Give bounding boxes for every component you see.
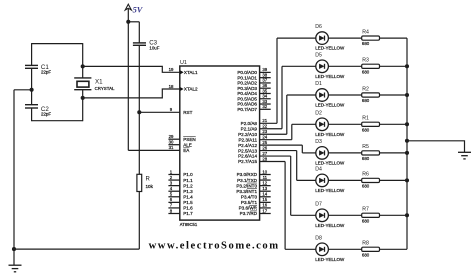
- op-amp U1 AT89C51 body: [180, 60, 260, 227]
- wire R4 to ground bus: [380, 37, 408, 39]
- svg-text:R1: R1: [362, 116, 369, 122]
- power +5V: [125, 4, 144, 14]
- pin P1.2 (3): [168, 180, 193, 188]
- svg-text:24: 24: [262, 134, 267, 139]
- ground left: [9, 249, 22, 272]
- wire XTAL2: [83, 89, 180, 98]
- svg-text:P0.5/AD5: P0.5/AD5: [237, 96, 257, 101]
- pin EA (31): [169, 145, 191, 153]
- pin P1.3 (4): [168, 186, 193, 194]
- LED D8: [315, 235, 345, 262]
- wire P2.4 to D3: [260, 145, 316, 153]
- svg-text:LED-YELLOW: LED-YELLOW: [315, 161, 345, 166]
- wire bus to ground: [407, 141, 465, 153]
- wire D2 to R1: [328, 123, 361, 125]
- wire P2.3 to D2: [260, 124, 316, 139]
- svg-text:R5: R5: [362, 144, 369, 150]
- wire D3 to R5: [328, 152, 361, 154]
- svg-text:D2: D2: [315, 110, 322, 116]
- wire C3 branch drop: [138, 22, 140, 43]
- resistor R1 680: [362, 116, 380, 133]
- svg-text:X1: X1: [95, 79, 103, 86]
- svg-text:P0.1/AD1: P0.1/AD1: [237, 75, 257, 80]
- svg-text:5V: 5V: [133, 5, 144, 14]
- pin PSEN (29): [168, 134, 195, 142]
- svg-text:680: 680: [362, 127, 370, 132]
- svg-text:P3.5/T1: P3.5/T1: [241, 200, 258, 205]
- node XTAL1 tap: [81, 64, 85, 68]
- LED D4: [315, 167, 345, 194]
- svg-text:LED-YELLOW: LED-YELLOW: [315, 103, 345, 108]
- svg-text:D8: D8: [315, 235, 322, 241]
- pin P0.5/AD5 (34): [237, 94, 270, 102]
- svg-text:P2.6/A14: P2.6/A14: [238, 154, 257, 159]
- svg-text:LED-YELLOW: LED-YELLOW: [315, 132, 345, 137]
- watermark text: [149, 241, 280, 252]
- svg-text:R2: R2: [362, 86, 369, 92]
- svg-text:D5: D5: [315, 52, 322, 58]
- pin P3.4/T0 (14): [241, 192, 271, 200]
- wire crystal loop bottom rail: [32, 120, 83, 122]
- pin P3.0/RXD (10): [237, 169, 271, 177]
- node bus junction D7 row: [405, 213, 409, 217]
- wire C3 branch top: [128, 21, 139, 23]
- node XTAL2 tap: [81, 96, 85, 100]
- svg-text:21: 21: [262, 118, 267, 123]
- svg-text:CRYSTAL: CRYSTAL: [95, 86, 115, 91]
- svg-text:39: 39: [262, 67, 267, 72]
- pin P0.3/AD3 (36): [237, 83, 270, 91]
- wire P2.6 to D7: [260, 156, 316, 215]
- svg-text:27: 27: [262, 151, 267, 156]
- wire crystal loop left mid segment: [31, 68, 33, 104]
- svg-text:R3: R3: [362, 58, 369, 64]
- resistor R8 680: [362, 241, 380, 258]
- node RST junction: [137, 110, 141, 114]
- svg-text:P0.7/AD7: P0.7/AD7: [237, 107, 257, 112]
- node bus junction D2 row: [405, 122, 409, 126]
- pin ALE (30): [168, 140, 191, 148]
- pin P3.5/T1 (15): [241, 197, 271, 205]
- pin P2.6/A14 (27): [238, 151, 268, 159]
- svg-text:680: 680: [362, 69, 370, 74]
- svg-text:P3.2/INT0: P3.2/INT0: [236, 183, 257, 188]
- svg-text:P2.1/A9: P2.1/A9: [241, 126, 258, 131]
- svg-text:P3.6/WR: P3.6/WR: [239, 206, 258, 211]
- wire R2 to ground bus: [380, 94, 408, 96]
- pin P3.3/INT1 (13): [236, 186, 270, 194]
- wire P2.2 to D1: [260, 95, 316, 134]
- resistor R7 680: [362, 207, 380, 224]
- svg-text:LED-YELLOW: LED-YELLOW: [315, 257, 345, 262]
- svg-text:D6: D6: [315, 24, 322, 30]
- svg-text:P1.4: P1.4: [183, 194, 193, 199]
- svg-text:26: 26: [262, 145, 267, 150]
- pin XTAL1 (19): [169, 67, 198, 75]
- svg-text:D3: D3: [315, 139, 322, 145]
- node bus ground tap: [405, 139, 409, 143]
- pin P0.0/AD0 (39): [237, 67, 270, 75]
- svg-text:R4: R4: [362, 29, 369, 35]
- wire P2.1 to D5: [260, 66, 316, 128]
- LED D5: [315, 52, 345, 79]
- resistor R6 680: [362, 172, 380, 189]
- svg-text:22pF: 22pF: [41, 111, 51, 116]
- node bus junction D5 row: [405, 64, 409, 68]
- wire R1 to ground bus: [380, 123, 408, 125]
- svg-text:680: 680: [362, 98, 370, 103]
- svg-text:LED-YELLOW: LED-YELLOW: [315, 223, 345, 228]
- svg-text:680: 680: [362, 252, 370, 257]
- ground right: [458, 152, 471, 159]
- svg-text:25: 25: [262, 140, 267, 145]
- pin P0.2/AD2 (37): [237, 78, 270, 86]
- node +5V to C3 branch: [126, 20, 130, 24]
- svg-text:P1.0: P1.0: [183, 172, 193, 177]
- node bus junction D3 row: [405, 151, 409, 155]
- svg-text:LED-YELLOW: LED-YELLOW: [315, 74, 345, 79]
- wire XTAL1: [83, 66, 180, 72]
- wire bottom rail to R: [14, 248, 139, 250]
- svg-text:34: 34: [262, 94, 267, 99]
- resistor R3 680: [362, 58, 380, 75]
- svg-text:17: 17: [262, 208, 267, 213]
- svg-text:EA: EA: [183, 148, 190, 153]
- svg-text:680: 680: [362, 218, 370, 223]
- resistor R2 680: [362, 86, 380, 103]
- wire ground bus: [406, 38, 408, 249]
- pin P3.1/TXD (11): [237, 175, 271, 183]
- wire P2.0 to D6: [260, 38, 316, 123]
- svg-text:P1.5: P1.5: [183, 200, 193, 205]
- svg-text:P3.4/T0: P3.4/T0: [241, 194, 258, 199]
- svg-text:U1: U1: [180, 60, 187, 66]
- svg-text:10k: 10k: [146, 184, 154, 189]
- wire crystal loop left lower segment: [31, 108, 33, 121]
- wire RST to R: [138, 112, 140, 174]
- wire crystal loop right rail upper: [82, 43, 84, 78]
- svg-text:23: 23: [262, 129, 267, 134]
- LED D7: [315, 201, 345, 228]
- wire R7 to ground bus: [380, 214, 408, 216]
- svg-text:R7: R7: [362, 207, 369, 213]
- svg-text:680: 680: [362, 156, 370, 161]
- svg-text:P0.2/AD2: P0.2/AD2: [237, 81, 257, 86]
- svg-text:22: 22: [262, 124, 267, 129]
- wire +5V rail down: [127, 9, 129, 150]
- svg-text:P1.3: P1.3: [183, 189, 193, 194]
- pin RST (9): [170, 107, 193, 115]
- wire R to ground rail: [138, 192, 140, 250]
- svg-text:13: 13: [262, 186, 267, 191]
- svg-text:18: 18: [169, 84, 174, 89]
- svg-text:P3.3/INT1: P3.3/INT1: [236, 189, 257, 194]
- svg-text:38: 38: [262, 72, 267, 77]
- pin P2.2/A10 (23): [238, 129, 268, 137]
- resistor R5 680: [362, 144, 380, 161]
- resistor R 10k: [137, 174, 154, 191]
- svg-text:P3.7/RD: P3.7/RD: [240, 211, 258, 216]
- svg-text:P0.6/AD6: P0.6/AD6: [237, 102, 257, 107]
- svg-text:10: 10: [262, 169, 267, 174]
- svg-text:36: 36: [262, 83, 267, 88]
- svg-text:R8: R8: [362, 241, 369, 247]
- svg-text:P2.3/A11: P2.3/A11: [238, 137, 257, 142]
- LED D2: [315, 110, 345, 136]
- wire mid node to left: [14, 89, 32, 91]
- node bus junction D4 row: [405, 178, 409, 182]
- LED D1: [315, 81, 345, 108]
- svg-text:P2.2/A10: P2.2/A10: [238, 132, 257, 137]
- svg-text:P1.7: P1.7: [183, 211, 193, 216]
- svg-text:P1.6: P1.6: [183, 206, 193, 211]
- pin P1.5 (6): [168, 197, 193, 205]
- svg-text:680: 680: [362, 41, 370, 46]
- svg-text:P3.1/TXD: P3.1/TXD: [237, 178, 258, 183]
- pin P0.7/AD7 (32): [237, 104, 270, 112]
- wire D4 to R6: [328, 179, 361, 181]
- svg-text:P1.2: P1.2: [183, 183, 193, 188]
- wire D6 to R4: [328, 37, 361, 39]
- svg-text:P2.7/A15: P2.7/A15: [238, 159, 257, 164]
- svg-text:10uF: 10uF: [149, 46, 159, 51]
- node bus junction D1 row: [405, 93, 409, 97]
- svg-text:D7: D7: [315, 201, 322, 207]
- capacitor C2: [25, 105, 51, 117]
- svg-text:RST: RST: [183, 110, 192, 115]
- pin P1.4 (5): [168, 192, 193, 200]
- svg-text:P1.1: P1.1: [183, 178, 193, 183]
- pin P3.2/INT0 (12): [236, 180, 270, 188]
- wire R8 to ground bus: [380, 248, 408, 250]
- svg-text:P0.3/AD3: P0.3/AD3: [237, 86, 257, 91]
- wire D5 to R3: [328, 65, 361, 67]
- wire EA to +5V: [128, 149, 180, 151]
- capacitor C1: [25, 64, 51, 75]
- svg-text:29: 29: [169, 134, 174, 139]
- wire crystal loop left upper segment: [31, 43, 33, 65]
- svg-text:D1: D1: [315, 81, 322, 87]
- pin P1.6 (7): [168, 203, 193, 211]
- svg-text:12: 12: [262, 180, 267, 185]
- crystal X1: [74, 78, 115, 91]
- svg-text:15: 15: [262, 197, 267, 202]
- svg-text:AT89C51: AT89C51: [180, 222, 198, 227]
- LED D6: [315, 24, 345, 51]
- svg-text:19: 19: [169, 67, 174, 72]
- resistor R4 680: [362, 29, 380, 46]
- pin P2.7/A15 (28): [238, 156, 268, 164]
- svg-text:11: 11: [263, 175, 268, 180]
- wire R5 to ground bus: [380, 152, 408, 154]
- svg-text:LED-YELLOW: LED-YELLOW: [315, 46, 345, 51]
- svg-text:www.electroSome.com: www.electroSome.com: [149, 241, 280, 252]
- svg-text:37: 37: [262, 78, 267, 83]
- wire crystal loop top rail: [32, 43, 83, 45]
- svg-text:R6: R6: [362, 172, 369, 178]
- capacitor C3: [133, 39, 160, 50]
- svg-text:28: 28: [262, 156, 267, 161]
- svg-text:P2.5/A13: P2.5/A13: [238, 148, 257, 153]
- svg-text:P0.4/AD4: P0.4/AD4: [237, 91, 257, 96]
- pin P2.4/A12 (25): [238, 140, 268, 148]
- pin P2.5/A13 (26): [238, 145, 268, 153]
- svg-text:680: 680: [362, 183, 370, 188]
- wire C3 to RST junction: [138, 45, 140, 112]
- wire P2.5 to D4: [260, 151, 316, 181]
- pin P0.4/AD4 (35): [237, 88, 270, 96]
- pin P1.7 (8): [168, 208, 193, 216]
- node between C1 and C2: [30, 88, 34, 92]
- svg-text:P3.0/RXD: P3.0/RXD: [237, 172, 258, 177]
- svg-text:LED-YELLOW: LED-YELLOW: [315, 188, 345, 193]
- pin P1.1 (2): [168, 175, 193, 183]
- pin P1.0 (1): [168, 169, 193, 177]
- svg-text:30: 30: [169, 140, 174, 145]
- pin P3.7/RD (17): [240, 208, 271, 216]
- wire R6 to ground bus: [380, 179, 408, 181]
- svg-text:XTAL1: XTAL1: [184, 70, 198, 75]
- svg-text:P2.4/A12: P2.4/A12: [238, 143, 257, 148]
- pin P3.6/WR (16): [239, 203, 271, 211]
- pin P2.1/A9 (22): [241, 124, 268, 132]
- wire crystal loop right rail lower: [82, 90, 84, 122]
- wire RST: [139, 111, 180, 113]
- svg-text:14: 14: [262, 192, 267, 197]
- node left ground junction: [12, 247, 16, 251]
- wire left ground drop: [13, 90, 15, 249]
- pin P0.1/AD1 (38): [237, 72, 270, 80]
- svg-text:P2.0/A8: P2.0/A8: [241, 121, 258, 126]
- svg-text:PSEN: PSEN: [183, 137, 196, 142]
- wire P2.7 to D8: [260, 161, 316, 249]
- svg-text:16: 16: [262, 203, 267, 208]
- wire D1 to R2: [328, 94, 361, 96]
- wire R3 to ground bus: [380, 65, 408, 67]
- svg-text:32: 32: [262, 104, 267, 109]
- LED D3: [315, 139, 345, 166]
- pin XTAL2 (18): [169, 84, 198, 92]
- svg-text:R: R: [146, 177, 151, 183]
- svg-text:P0.0/AD0: P0.0/AD0: [237, 70, 257, 75]
- svg-text:33: 33: [262, 99, 267, 104]
- pin P0.6/AD6 (33): [237, 99, 270, 107]
- svg-text:XTAL2: XTAL2: [184, 87, 198, 92]
- svg-text:31: 31: [169, 145, 174, 150]
- svg-text:D4: D4: [315, 167, 322, 173]
- pin P2.3/A11 (24): [238, 134, 267, 142]
- pin P2.0/A8 (21): [241, 118, 268, 126]
- svg-text:22pF: 22pF: [41, 70, 51, 75]
- svg-text:35: 35: [262, 88, 267, 93]
- wire D8 to R8: [328, 248, 361, 250]
- wire D7 to R7: [328, 214, 361, 216]
- svg-text:ALE: ALE: [183, 142, 192, 147]
